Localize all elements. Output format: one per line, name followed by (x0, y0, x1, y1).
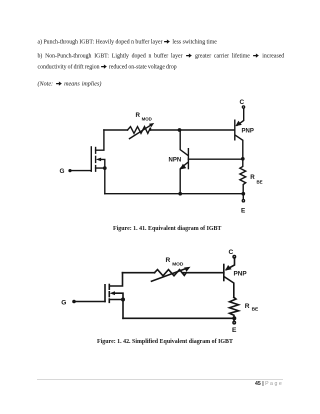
mosfet M2 body stub (114, 293, 124, 299)
paragraph a (38, 39, 217, 46)
resistor RMOD2 arrow shaft (152, 269, 187, 282)
mosfet M1 source stub (96, 168, 105, 194)
wire: top rail left (104, 129, 128, 131)
wire: top rail right (151, 129, 235, 131)
paragraph b line 1 (38, 53, 285, 60)
node: emitter junction (178, 192, 182, 196)
terminal C1 (242, 106, 244, 108)
resistor RMOD arrow head (149, 123, 154, 127)
resistor RBE2 zigzag (230, 297, 239, 318)
caption figure 1.41 (113, 227, 221, 233)
terminal E1 lead (242, 194, 244, 199)
mosfet M2 channel bar segments (108, 285, 110, 290)
pnp Q1 emitter arrow (235, 121, 241, 126)
terminal E1 (242, 200, 244, 202)
mosfet M1 gate bar (90, 147, 92, 171)
svg-text:E: E (232, 327, 237, 334)
pnp Q3 emitter lead from C (226, 258, 234, 270)
node: RBE bottom junction (241, 192, 245, 196)
terminal E2 (233, 321, 236, 324)
npn Q2 emitter arrow (180, 164, 187, 170)
wire: top rail right (183, 272, 224, 274)
npn Q2 collector (180, 130, 187, 155)
terminal G2 (72, 300, 76, 304)
node: top rail junction (178, 128, 182, 132)
mosfet M2 body arrow (110, 291, 115, 295)
npn Q2 base wire (188, 158, 242, 160)
pnp Q3 emitter arrow (225, 265, 232, 271)
mosfet M1 drain stub (96, 130, 104, 150)
resistor RMOD2 zigzag (155, 270, 187, 276)
caption figure 1.42 (97, 340, 233, 346)
resistor RMOD2 arrow head (184, 267, 190, 272)
pnp Q1 bar (234, 120, 236, 140)
resistor RMOD arrow shaft (130, 125, 152, 139)
pnp Q1 collector (235, 135, 243, 159)
svg-text:G: G (61, 299, 66, 306)
terminal C2 (233, 256, 236, 258)
mosfet M2 drain stub (109, 273, 122, 286)
svg-text:MOD: MOD (142, 117, 152, 122)
resistor RMOD zigzag (128, 127, 151, 134)
svg-text:NPN: NPN (169, 157, 182, 163)
resistor RBE zigzag (240, 159, 246, 194)
npn Q2 bar (187, 149, 189, 169)
mosfet M1 body arrow (96, 158, 101, 162)
pnp Q3 bar (223, 265, 225, 281)
terminal E2 lead (233, 318, 235, 321)
svg-text:PNP: PNP (234, 270, 248, 277)
mosfet M2 source dot (121, 298, 125, 302)
wire: G lead (76, 301, 106, 303)
svg-text:MOD: MOD (172, 262, 184, 268)
mosfet M1 channel bar segments (95, 148, 97, 154)
mosfet M2 gate bar (104, 285, 106, 302)
note line italic (38, 81, 102, 88)
node: RBE2 bottom junction (232, 316, 236, 320)
wire: bottom rail (105, 193, 243, 195)
wire: top rail left (123, 272, 155, 274)
npn Q2 emitter (180, 162, 188, 193)
svg-text:BE: BE (257, 179, 263, 184)
svg-text:R: R (166, 257, 171, 264)
svg-text:C: C (240, 99, 245, 106)
svg-text:E: E (241, 207, 246, 214)
svg-text:R: R (250, 174, 255, 181)
svg-text:C: C (229, 249, 234, 256)
mosfet M1 body stub (100, 159, 105, 168)
terminal G1 (68, 169, 71, 172)
node: base/collector junction (241, 157, 245, 161)
paragraph b line 2 (38, 64, 177, 71)
pnp Q1 emitter lead from C (237, 108, 244, 125)
svg-text:BE: BE (252, 307, 259, 313)
footer rule (37, 379, 283, 380)
mosfet M2 source stub (109, 300, 123, 319)
footer page number (255, 382, 282, 387)
svg-text:PNP: PNP (242, 128, 254, 134)
wire: G lead (72, 170, 92, 172)
pnp Q3 collector (224, 277, 234, 298)
wire: bottom rail (123, 317, 234, 319)
svg-text:R: R (136, 112, 141, 119)
svg-text:G: G (60, 168, 65, 175)
svg-text:R: R (245, 303, 250, 310)
mosfet M1 source dot (103, 166, 107, 170)
